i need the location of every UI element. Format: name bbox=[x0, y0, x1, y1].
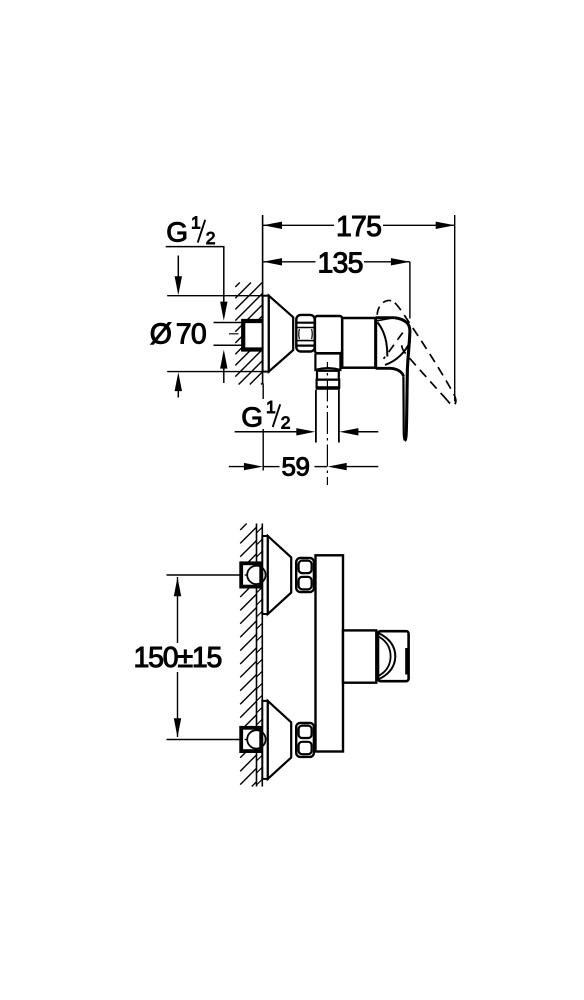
wall hatching (plan view) bbox=[240, 524, 256, 787]
coupling nut bbox=[317, 380, 340, 388]
hose coupling bbox=[317, 371, 339, 380]
dashed raised lever lower edge bbox=[402, 344, 447, 400]
dim 175 arrowheads bbox=[263, 222, 282, 229]
SIDEVIEW bbox=[150, 211, 456, 485]
dia70 top arrow bbox=[177, 256, 179, 281]
union square top (plan) bbox=[241, 563, 261, 586]
outlet pipe edge lines bbox=[315, 390, 317, 443]
svg-text:2: 2 bbox=[281, 412, 291, 432]
dim 135 right extension line bbox=[409, 262, 411, 319]
outlet centerline bbox=[326, 362, 328, 485]
dim 175 right extension line bbox=[454, 215, 456, 402]
dome lower arc bbox=[385, 342, 410, 365]
escutcheon cone top (plan) bbox=[268, 536, 291, 614]
wall face lines (plan view, double) bbox=[256, 524, 258, 787]
wall face line (side view) bbox=[262, 215, 264, 384]
dashed raised lever tip bbox=[447, 397, 456, 405]
supply pipe centerline bbox=[229, 333, 245, 335]
lever top small line bbox=[377, 318, 394, 321]
handle crescent outer arc bbox=[379, 633, 396, 679]
dim 175 dimension line bbox=[263, 224, 455, 226]
text G1/2 bottom (white bg masks wall ext line) bbox=[239, 399, 293, 429]
svg-text:Ø: Ø bbox=[150, 318, 172, 350]
dim 59 dimension line + arrows bbox=[229, 466, 246, 468]
dashed raised lever butt bbox=[377, 300, 395, 314]
supply nipple (thick G1/2 pipe in wall) bbox=[243, 321, 262, 350]
supply pipe thin diameter lines bbox=[214, 322, 243, 324]
handle cap (plan) bbox=[378, 631, 409, 681]
dim 150 dimension line bbox=[177, 577, 179, 643]
dashed raised lever upper edge bbox=[395, 303, 455, 397]
union nut (side) bbox=[296, 315, 314, 352]
svg-text:70: 70 bbox=[176, 318, 206, 350]
union nut bottom (plan) bbox=[296, 723, 314, 757]
dim 135 arrowheads bbox=[263, 258, 282, 265]
valve body front section bbox=[342, 318, 375, 368]
svg-text:G: G bbox=[166, 216, 188, 247]
escutcheon plate bottom (plan) bbox=[262, 701, 268, 779]
G1/2 top down arrowhead bbox=[220, 302, 227, 321]
svg-text:135: 135 bbox=[318, 247, 363, 279]
text G1/2 top bbox=[166, 213, 215, 248]
escutcheon plate top (plan) bbox=[262, 536, 268, 614]
lever back edge bbox=[403, 376, 405, 440]
svg-text:2: 2 bbox=[206, 228, 216, 248]
svg-text:59: 59 bbox=[282, 451, 310, 481]
thin layer ticks between wall lines bbox=[257, 527, 263, 785]
cartridge housing (plan) bbox=[343, 630, 376, 682]
union circle bottom bbox=[247, 730, 265, 748]
escutcheon base plate (side) bbox=[263, 296, 269, 372]
dia70 extension lines bbox=[167, 295, 262, 297]
handle tip bar (plan) bbox=[405, 648, 408, 675]
union nut top (plan) bbox=[296, 558, 314, 592]
wall hatching (side view) bbox=[235, 283, 262, 385]
cap inner arc bbox=[377, 322, 387, 356]
outlet boss under body bbox=[315, 354, 340, 370]
dim 150 extension line top bbox=[167, 574, 248, 576]
cap bottom edge bbox=[376, 368, 404, 376]
extension line below wall (to 59 dim) bbox=[262, 384, 264, 471]
ext line inside top union bbox=[245, 574, 248, 576]
ext line inside bottom union bbox=[245, 739, 248, 741]
lever front edge bbox=[405, 331, 410, 441]
handle crescent inner arc bbox=[379, 637, 391, 676]
svg-text:175: 175 bbox=[336, 211, 381, 243]
PLANVIEW bbox=[134, 524, 409, 787]
body right edge thick bbox=[374, 318, 377, 367]
union square bottom (plan) bbox=[241, 728, 261, 751]
dome upper slant bbox=[395, 318, 410, 331]
svg-text:150±15: 150±15 bbox=[134, 642, 222, 674]
dim 150 arrowheads bbox=[174, 577, 181, 596]
dashed raised lever lower edge near dome bbox=[384, 333, 403, 359]
union circle top bbox=[247, 566, 265, 584]
label G1/2 top leader bbox=[166, 247, 224, 302]
cap top edge bbox=[376, 316, 395, 319]
svg-text:G: G bbox=[241, 402, 263, 433]
escutcheon cone (side) bbox=[269, 296, 293, 372]
faucet body (plan) bbox=[316, 555, 344, 751]
svg-text:1: 1 bbox=[191, 213, 201, 233]
svg-text:1: 1 bbox=[266, 397, 276, 417]
label G1/2 bottom leader + arrows bbox=[235, 431, 297, 433]
dim 150 extension line bottom bbox=[167, 739, 248, 741]
valve body rear section bbox=[315, 316, 342, 353]
G1/2 top up arrowhead + line below pipe bbox=[220, 350, 227, 369]
escutcheon cone bottom (plan) bbox=[268, 701, 291, 779]
dim 135 dimension line bbox=[263, 261, 410, 263]
dia70 bottom arrow bbox=[175, 372, 182, 391]
